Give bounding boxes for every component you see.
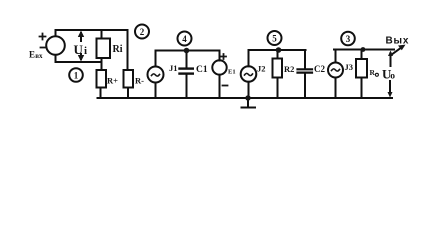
wire C2 bottom stem (304, 74, 306, 99)
wire C1 bottom stem (186, 75, 188, 99)
wire C2 top stem (304, 50, 306, 69)
Ui down arrow (80, 54, 82, 59)
wire J2 top stem (248, 50, 250, 66)
tilde inside J2 (245, 73, 253, 75)
wire right side of input loop down to R- (127, 30, 129, 70)
wire R2 bottom stem (277, 78, 279, 99)
svg-text:Вых: Вых (386, 36, 410, 47)
resistor R2 (273, 59, 283, 78)
svg-text:J2: J2 (257, 64, 266, 74)
node circle 5 (268, 31, 282, 45)
wire J3 top stem (335, 50, 337, 63)
svg-text:E: E (29, 50, 35, 60)
Uo down arrow (389, 81, 391, 94)
Вых output arrow line (391, 47, 402, 55)
resistor R- (124, 70, 134, 88)
wire Ri bottom to R+ top (101, 58, 103, 70)
svg-text:i: i (84, 45, 87, 57)
arrowhead Вых (398, 45, 406, 51)
plus sign of E1 (221, 54, 226, 59)
resistor Ro load (356, 59, 367, 78)
svg-text:1: 1 (74, 71, 79, 81)
node circle 1 (69, 68, 83, 82)
wire R+ bottom stem (100, 88, 102, 99)
svg-text:R: R (370, 68, 376, 77)
wire J2 bottom stem (248, 82, 250, 98)
minus sign of E1 (223, 85, 228, 87)
junction dot ground (245, 95, 250, 100)
wire Ro top stem (361, 50, 363, 60)
svg-text:R2: R2 (284, 64, 294, 74)
source E1 circle (212, 60, 226, 74)
current source J2 circle (241, 66, 257, 82)
wire source bottom stem (55, 55, 57, 62)
wire bottom of input loop (56, 61, 102, 63)
Uo up arrow (390, 53, 392, 66)
svg-text:3: 3 (346, 34, 351, 44)
tilde inside J1 (152, 69, 340, 76)
capacitor C1 plates (180, 67, 193, 69)
resistor R+ (97, 70, 107, 88)
svg-text:o: o (390, 71, 395, 81)
wire rail node 3 (334, 49, 394, 51)
svg-text:J1: J1 (169, 63, 178, 73)
svg-text:Ri: Ri (113, 44, 123, 55)
current source J1 circle (148, 67, 164, 83)
source E1 top stem (219, 51, 221, 61)
wire source top stem (55, 30, 57, 36)
node circle 2 (135, 25, 149, 39)
svg-text:Е1: Е1 (228, 69, 236, 76)
tilde inside J3 (332, 69, 340, 71)
svg-text:R+: R+ (107, 76, 118, 86)
junction dot node 5 (276, 47, 282, 53)
wire J1 bottom stem (155, 83, 157, 99)
svg-text:2: 2 (140, 27, 145, 37)
wire bottom main rail (98, 97, 393, 99)
junction dot node 4 (184, 48, 190, 54)
Ui up arrow (80, 33, 82, 41)
capacitor C2 plates (298, 68, 313, 70)
wire J3 bottom stem (335, 78, 337, 99)
svg-text:4: 4 (182, 34, 187, 44)
arrowhead Uo up (388, 51, 393, 57)
wire rail A to Ri (101, 30, 103, 39)
svg-text:C2: C2 (314, 64, 325, 74)
wire C1 top stem (186, 51, 188, 68)
plus sign of Eвх (40, 34, 228, 86)
arrowhead Ui up (78, 31, 84, 38)
svg-text:5: 5 (272, 34, 277, 44)
svg-text:U: U (74, 42, 84, 57)
wire E1 bottom stem (219, 75, 221, 98)
wire rail node 4 (156, 50, 220, 52)
wire rail node 5 (249, 49, 306, 51)
current source J3 circle (328, 63, 343, 78)
node circle 3 (341, 32, 355, 46)
arrowhead Ui down (78, 55, 84, 62)
arrowhead Uo down (388, 92, 393, 98)
wire Ro bottom stem (361, 78, 363, 99)
node circle 4 (178, 32, 192, 46)
svg-text:C1: C1 (196, 65, 208, 75)
ground bar (242, 107, 256, 109)
wire R2 top stem (277, 50, 279, 59)
wire R- bottom stem (127, 88, 129, 99)
minus sign of Eвх (41, 47, 47, 49)
ground stem (247, 98, 249, 107)
wire top rail node 2 (56, 29, 128, 31)
svg-text:вх: вх (35, 52, 43, 60)
wire J1 top stem (155, 51, 157, 67)
resistor Ri (97, 39, 111, 59)
source Eвх circle (46, 36, 65, 55)
svg-text:R-: R- (135, 76, 144, 86)
svg-text:J3: J3 (345, 62, 354, 72)
junction dot node 3 (361, 47, 366, 52)
